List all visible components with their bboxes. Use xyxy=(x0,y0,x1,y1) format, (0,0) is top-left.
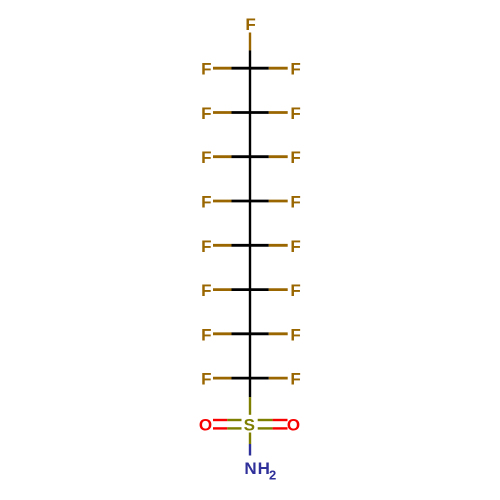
atom F left of C3 xyxy=(201,148,211,167)
bond C1-F right, C half xyxy=(250,67,269,70)
svg-text:S: S xyxy=(244,415,255,434)
svg-text:F: F xyxy=(290,237,300,256)
bond C3-F right, C half xyxy=(250,155,269,158)
bond C5-F right, C half xyxy=(250,244,269,247)
svg-text:F: F xyxy=(201,148,211,167)
bond C4-F left, F half xyxy=(213,200,232,203)
bond C2-F right, C half xyxy=(250,111,269,114)
atom F right of C8 xyxy=(290,370,300,389)
svg-text:F: F xyxy=(201,281,211,300)
bond S=O right, S half xyxy=(258,427,273,429)
bond F-C1 (top), F half xyxy=(249,33,251,51)
atom O left xyxy=(199,415,212,434)
bond C8-F right, C half xyxy=(250,377,269,380)
bond C1-F left, C half xyxy=(232,67,251,70)
chain backbone C1-C8 (black) xyxy=(249,68,251,397)
atom F right of C5 xyxy=(290,237,300,256)
bond C1-F right, F half xyxy=(269,67,288,70)
bond C7-F left, C half xyxy=(232,332,251,335)
svg-text:F: F xyxy=(201,237,211,256)
atom F left of C4 xyxy=(201,193,211,212)
bond C6-F left, F half xyxy=(213,288,232,291)
bond S=O right, O half xyxy=(273,427,288,429)
bond C8-S lower half (S colored) xyxy=(249,397,251,415)
svg-text:F: F xyxy=(290,370,300,389)
atom N (NH2 group) xyxy=(244,459,277,483)
svg-text:F: F xyxy=(290,193,300,212)
atom F left of C6 xyxy=(201,281,211,300)
bond C7-F left, F half xyxy=(213,332,232,335)
atom F right of C7 xyxy=(290,325,300,344)
atom F left of C2 xyxy=(201,104,211,123)
bond C5-F left, F half xyxy=(213,244,232,247)
svg-text:F: F xyxy=(290,281,300,300)
bond C3-F left, F half xyxy=(213,155,232,158)
bond C3-F right, F half xyxy=(269,155,288,158)
atom F right of C6 xyxy=(290,281,300,300)
bond C8-F left, F half xyxy=(213,377,232,380)
svg-text:F: F xyxy=(290,325,300,344)
svg-text:F: F xyxy=(201,370,211,389)
atom S xyxy=(244,415,255,434)
atom F left of C8 xyxy=(201,370,211,389)
bond F-C1 (top), C half xyxy=(249,50,251,68)
atom O right xyxy=(287,415,300,434)
bond C4-F right, C half xyxy=(250,200,269,203)
atom F left of C5 xyxy=(201,237,211,256)
bond S-N, N half xyxy=(249,444,251,456)
svg-text:F: F xyxy=(201,104,211,123)
bond C6-F right, C half xyxy=(250,288,269,291)
atom F right of C1 xyxy=(290,60,300,79)
bond C6-F right, F half xyxy=(269,288,288,291)
bond C4-F right, F half xyxy=(269,200,288,203)
svg-text:F: F xyxy=(290,60,300,79)
bond C4-F left, C half xyxy=(232,200,251,203)
svg-text:F: F xyxy=(290,104,300,123)
bond S-N, S half xyxy=(249,433,251,445)
svg-text:F: F xyxy=(245,15,255,34)
atom F right of C2 xyxy=(290,104,300,123)
bond C1-F left, F half xyxy=(213,67,232,70)
atom F right of C3 xyxy=(290,148,300,167)
atom F left of C7 xyxy=(201,325,211,344)
bond C5-F right, F half xyxy=(269,244,288,247)
bond C5-F left, C half xyxy=(232,244,251,247)
bond C3-F left, C half xyxy=(232,155,251,158)
atom F left of C1 xyxy=(201,60,211,79)
bond S=O right, S half xyxy=(258,419,273,421)
atom F top xyxy=(245,15,255,34)
bond C6-F left, C half xyxy=(232,288,251,291)
svg-text:F: F xyxy=(201,325,211,344)
svg-text:O: O xyxy=(287,415,300,434)
svg-text:F: F xyxy=(290,148,300,167)
bond C2-F left, F half xyxy=(213,111,232,114)
bond C7-F right, F half xyxy=(269,332,288,335)
svg-text:F: F xyxy=(201,60,211,79)
bond C2-F left, C half xyxy=(232,111,251,114)
bond S=O left, S half xyxy=(227,419,241,421)
svg-text:O: O xyxy=(199,415,212,434)
bond C2-F right, F half xyxy=(269,111,288,114)
bond C8-F right, F half xyxy=(269,377,288,380)
bond S=O left, O half xyxy=(213,419,227,421)
bond S=O right, O half xyxy=(273,419,288,421)
bond C7-F right, C half xyxy=(250,332,269,335)
bond C8-F left, C half xyxy=(232,377,251,380)
svg-text:F: F xyxy=(201,193,211,212)
atom F right of C4 xyxy=(290,193,300,212)
bond S=O left, O half xyxy=(213,427,227,429)
bond S=O left, S half xyxy=(227,427,241,429)
